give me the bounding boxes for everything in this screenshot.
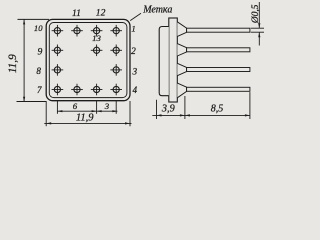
svg-text:7: 7 <box>37 85 42 95</box>
svg-text:3: 3 <box>104 101 110 111</box>
svg-text:13: 13 <box>92 33 101 43</box>
svg-text:11,9: 11,9 <box>7 54 19 73</box>
svg-text:11: 11 <box>72 8 81 19</box>
svg-text:4: 4 <box>133 85 138 95</box>
svg-text:3,9: 3,9 <box>161 104 175 115</box>
svg-text:Метка: Метка <box>142 5 172 16</box>
svg-text:11,9: 11,9 <box>76 112 94 123</box>
svg-text:9: 9 <box>38 47 43 58</box>
svg-text:8,5: 8,5 <box>211 104 224 115</box>
svg-text:3: 3 <box>132 67 138 77</box>
svg-text:12: 12 <box>96 8 106 19</box>
svg-text:Ø0,5: Ø0,5 <box>251 4 261 24</box>
svg-text:10: 10 <box>34 23 43 33</box>
svg-text:8: 8 <box>36 66 41 76</box>
svg-text:2: 2 <box>131 46 136 57</box>
svg-text:6: 6 <box>73 101 78 111</box>
svg-text:1: 1 <box>131 24 135 34</box>
